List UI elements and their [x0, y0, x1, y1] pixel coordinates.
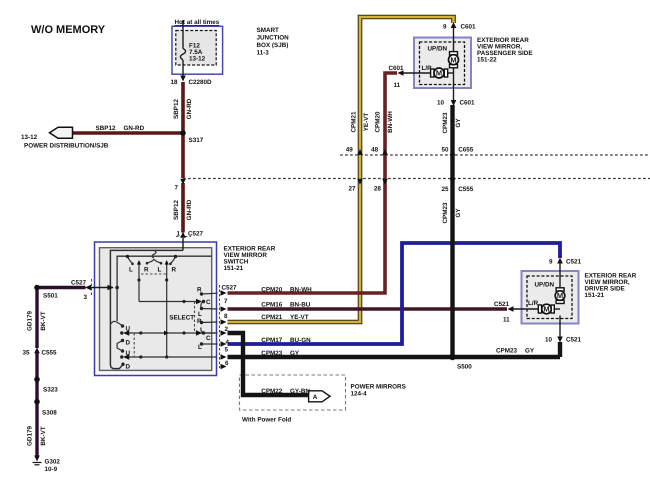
svg-text:R: R — [197, 318, 202, 325]
svg-text:C555: C555 — [42, 350, 58, 357]
svg-text:UP/DN: UP/DN — [428, 46, 448, 53]
svg-text:CPM21: CPM21 — [261, 314, 282, 321]
svg-text:C: C — [206, 335, 211, 342]
svg-text:6: 6 — [225, 360, 229, 367]
svg-text:SELECT: SELECT — [169, 315, 194, 322]
svg-text:35: 35 — [23, 350, 31, 357]
svg-text:M: M — [436, 69, 442, 78]
svg-text:POWER DISTRIBUTION/SJB: POWER DISTRIBUTION/SJB — [24, 143, 109, 150]
svg-text:C555: C555 — [458, 186, 474, 193]
svg-text:GD179: GD179 — [27, 426, 34, 446]
svg-text:BN-WH: BN-WH — [387, 111, 394, 133]
svg-text:25: 25 — [442, 186, 450, 193]
svg-text:GD179: GD179 — [27, 311, 34, 331]
svg-text:D: D — [126, 340, 131, 347]
svg-text:R: R — [197, 287, 202, 294]
svg-text:CPM17: CPM17 — [261, 337, 282, 344]
svg-text:GY-BN: GY-BN — [290, 388, 310, 395]
svg-text:C601: C601 — [460, 100, 476, 107]
svg-text:1: 1 — [177, 231, 181, 238]
svg-text:10: 10 — [545, 337, 553, 344]
svg-text:151-21: 151-21 — [585, 292, 605, 299]
svg-text:13-12: 13-12 — [21, 134, 38, 141]
svg-text:9: 9 — [549, 259, 553, 266]
svg-text:JUNCTION: JUNCTION — [257, 35, 290, 42]
svg-text:S501: S501 — [43, 293, 58, 300]
svg-text:3: 3 — [84, 294, 88, 301]
svg-text:U: U — [126, 326, 131, 333]
svg-text:5: 5 — [225, 347, 229, 354]
svg-text:13-12: 13-12 — [189, 56, 206, 63]
svg-text:C527: C527 — [71, 280, 87, 287]
svg-text:CPM20: CPM20 — [261, 287, 282, 294]
svg-text:C601: C601 — [389, 65, 405, 72]
svg-text:UP/DN: UP/DN — [535, 282, 555, 289]
svg-text:18: 18 — [171, 79, 179, 86]
svg-text:CPM16: CPM16 — [261, 302, 282, 309]
svg-text:GY: GY — [455, 118, 462, 128]
svg-text:GY: GY — [525, 348, 535, 355]
svg-text:M: M — [543, 305, 549, 314]
svg-text:50: 50 — [442, 146, 450, 153]
svg-text:R: R — [144, 267, 149, 274]
svg-text:L: L — [198, 311, 202, 318]
svg-text:BN-WH: BN-WH — [290, 287, 312, 294]
svg-text:11-3: 11-3 — [257, 50, 270, 57]
svg-text:28: 28 — [374, 185, 382, 192]
svg-text:BN-BU: BN-BU — [290, 302, 311, 309]
svg-text:L: L — [158, 267, 162, 274]
svg-text:GY: GY — [455, 208, 462, 218]
svg-text:C601: C601 — [461, 24, 477, 31]
svg-text:S317: S317 — [189, 137, 204, 144]
svg-text:8: 8 — [224, 313, 228, 320]
svg-text:CPM23: CPM23 — [442, 112, 449, 133]
svg-text:C2280D: C2280D — [189, 79, 213, 86]
svg-text:CPM23: CPM23 — [442, 202, 449, 223]
svg-text:Hot at all times: Hot at all times — [175, 19, 220, 26]
svg-text:10-9: 10-9 — [45, 466, 58, 473]
svg-text:GY: GY — [290, 350, 300, 357]
svg-text:CPM23: CPM23 — [496, 348, 517, 355]
svg-text:W/O MEMORY: W/O MEMORY — [31, 24, 106, 36]
svg-text:SMART: SMART — [257, 27, 280, 34]
svg-text:CPM21: CPM21 — [351, 111, 358, 132]
svg-text:151-21: 151-21 — [224, 265, 244, 272]
svg-text:POWER MIRRORS: POWER MIRRORS — [351, 384, 406, 391]
svg-text:M: M — [450, 55, 456, 64]
svg-text:48: 48 — [371, 146, 379, 153]
svg-text:CPM22: CPM22 — [261, 388, 282, 395]
svg-text:U: U — [126, 350, 131, 357]
svg-text:11: 11 — [394, 82, 401, 89]
svg-text:C: C — [206, 299, 211, 306]
svg-text:YE-VT: YE-VT — [290, 314, 309, 321]
svg-text:C655: C655 — [458, 146, 474, 153]
svg-text:YE-VT: YE-VT — [363, 113, 370, 132]
svg-text:L/R: L/R — [528, 300, 539, 307]
svg-text:124-4: 124-4 — [351, 391, 368, 398]
svg-text:11: 11 — [503, 317, 510, 324]
svg-text:GN-RD: GN-RD — [124, 125, 145, 132]
svg-text:G302: G302 — [45, 459, 61, 466]
svg-text:C521: C521 — [566, 259, 582, 266]
svg-text:2: 2 — [225, 326, 229, 333]
svg-text:151-22: 151-22 — [477, 57, 497, 64]
svg-text:9: 9 — [443, 24, 447, 31]
svg-text:BK-VT: BK-VT — [40, 311, 47, 330]
svg-text:7: 7 — [224, 298, 228, 305]
svg-text:BK-VT: BK-VT — [40, 426, 47, 445]
svg-text:L: L — [129, 267, 133, 274]
svg-text:BU-GN: BU-GN — [290, 337, 311, 344]
svg-text:C527: C527 — [222, 285, 238, 292]
svg-text:GN-RD: GN-RD — [186, 199, 193, 220]
svg-text:BOX (SJB): BOX (SJB) — [257, 42, 289, 49]
svg-text:27: 27 — [349, 185, 357, 192]
svg-text:SBP12: SBP12 — [96, 125, 116, 132]
svg-text:L/R: L/R — [422, 65, 433, 72]
svg-text:S308: S308 — [42, 410, 57, 417]
svg-text:A: A — [313, 394, 318, 401]
svg-text:S500: S500 — [457, 364, 472, 371]
svg-text:7: 7 — [175, 184, 179, 191]
svg-text:SBP12: SBP12 — [173, 200, 180, 220]
svg-text:4: 4 — [226, 339, 230, 346]
svg-text:GN-RD: GN-RD — [186, 98, 193, 119]
svg-text:S323: S323 — [43, 387, 58, 394]
svg-text:49: 49 — [346, 146, 354, 153]
svg-text:With Power Fold: With Power Fold — [242, 417, 291, 424]
svg-text:10: 10 — [437, 100, 445, 107]
svg-text:M: M — [557, 291, 563, 300]
svg-text:C521: C521 — [494, 301, 510, 308]
svg-text:L: L — [198, 344, 202, 351]
svg-text:SBP12: SBP12 — [173, 99, 180, 119]
svg-text:C527: C527 — [188, 231, 204, 238]
svg-text:C521: C521 — [566, 337, 582, 344]
svg-text:CPM23: CPM23 — [261, 350, 282, 357]
svg-text:R: R — [172, 267, 177, 274]
svg-text:CPM20: CPM20 — [375, 111, 382, 132]
svg-text:D: D — [126, 364, 131, 371]
